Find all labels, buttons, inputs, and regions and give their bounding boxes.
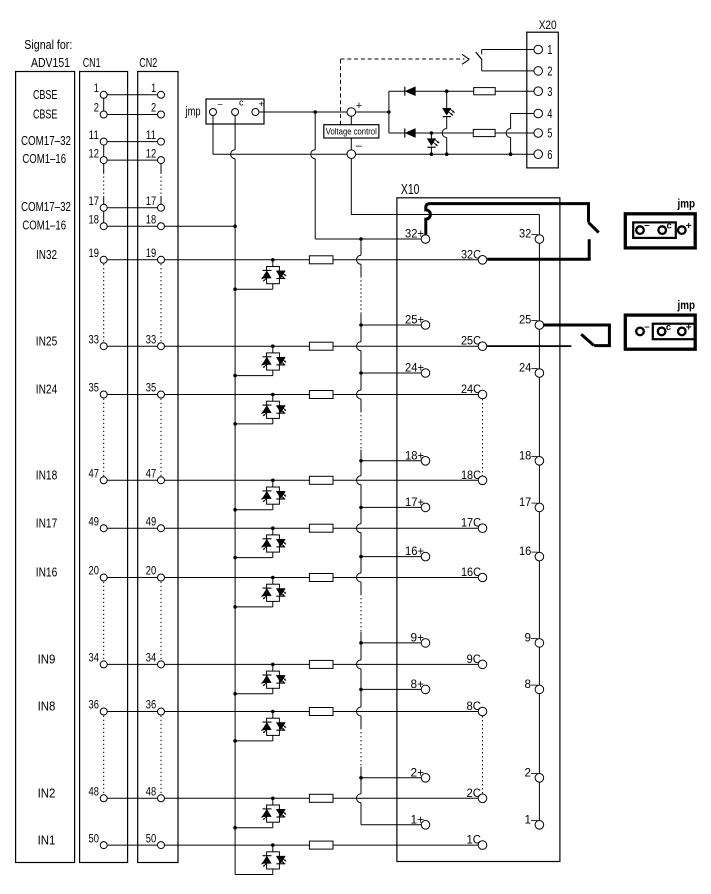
diode bridge left rail xyxy=(388,91,390,133)
svg-text:48: 48 xyxy=(89,785,100,799)
svg-text:18+: 18+ xyxy=(405,448,424,462)
optocoupler indicator IN18 xyxy=(271,479,275,483)
tie CN2 pins 12..17 (dotted continuation) xyxy=(160,164,162,173)
voltage control - terminal xyxy=(347,150,356,159)
junction return IN25 / c bus xyxy=(233,374,237,378)
pin circle CN2-49 xyxy=(158,525,165,532)
svg-text:36: 36 xyxy=(89,698,100,712)
optocoupler return IN9 xyxy=(272,688,274,694)
wire CN1-2 to CN2-2 xyxy=(104,114,161,116)
voltage control + terminal xyxy=(347,108,356,117)
svg-text:CBSE: CBSE xyxy=(33,88,58,102)
svg-text:+: + xyxy=(259,99,265,110)
fuse IN8 xyxy=(309,708,333,716)
tie CN1 pins 11-12 xyxy=(103,142,105,161)
junction + bus top xyxy=(359,237,363,241)
svg-text:17: 17 xyxy=(89,194,100,208)
diode D1 xyxy=(404,87,406,96)
svg-text:6: 6 xyxy=(547,147,552,162)
LED1 vertical wire with hop xyxy=(446,91,448,108)
wire + bus to X10 9+ xyxy=(361,642,426,644)
svg-text:11: 11 xyxy=(146,128,157,142)
dotted continuation CN1 36..48 xyxy=(103,716,105,794)
terminal X10 17+ xyxy=(421,503,430,512)
svg-text:IN16: IN16 xyxy=(36,566,58,580)
fuse IN24 xyxy=(309,391,333,399)
svg-text:18–: 18– xyxy=(519,448,538,462)
pin circle CN2-35 xyxy=(158,391,165,398)
terminal X10 1C xyxy=(478,841,487,850)
svg-text:8C: 8C xyxy=(467,699,482,713)
optocoupler indicator IN9 xyxy=(271,663,275,667)
svg-text:19: 19 xyxy=(146,246,157,260)
pin circle CN2-19 xyxy=(158,256,165,263)
wire + bus to X10 18+ xyxy=(361,460,426,462)
svg-text:48: 48 xyxy=(146,785,157,799)
svg-text:19: 19 xyxy=(89,246,100,260)
jumper icon 2 terminal - xyxy=(636,328,644,336)
external contact blade (ch25) xyxy=(581,334,594,345)
terminal X20-2 xyxy=(534,67,543,76)
switch blade S20 xyxy=(476,52,482,60)
connector CN2 box xyxy=(138,72,178,863)
svg-text:18: 18 xyxy=(89,212,100,226)
optocoupler indicator IN16 xyxy=(271,576,275,580)
svg-text:17C: 17C xyxy=(461,516,481,530)
junction CN2-18 / c bus xyxy=(233,224,237,228)
svg-text:2+: 2+ xyxy=(411,765,425,779)
bold example wire external contact to X10 32C xyxy=(487,239,589,259)
terminal X10 16C xyxy=(478,573,487,582)
wire CN1-20 to CN2-20 xyxy=(104,577,161,579)
wire CN1-1 to CN2-1 xyxy=(104,94,161,96)
pin circle CN1-17 xyxy=(100,204,107,211)
wire + bus to X10 17+ xyxy=(361,506,426,508)
jumper icon 1 terminal + xyxy=(678,226,686,234)
junction return IN18 / c bus xyxy=(233,508,237,512)
+ bus vertical xyxy=(360,239,362,255)
terminal X20-5 xyxy=(534,129,543,138)
jmp terminal box xyxy=(206,99,264,124)
wire - feed (voltage control - to X10 minus bus) xyxy=(350,159,352,215)
terminal X10 2C xyxy=(478,794,487,803)
svg-text:16–: 16– xyxy=(519,544,538,558)
svg-text:IN24: IN24 xyxy=(36,383,58,397)
dotted continuation CN2 19..33 xyxy=(160,264,162,342)
dotted continuation CN2 36..48 xyxy=(160,716,162,794)
LED2 vertical wire xyxy=(430,133,432,139)
jumper setting icon 1 box xyxy=(625,214,695,248)
terminal X10 18+ xyxy=(421,457,430,466)
wire CN1-11 to CN2-11 xyxy=(104,141,161,143)
optocoupler return IN1 xyxy=(272,869,274,875)
fuse IN16 xyxy=(309,574,333,582)
optocoupler indicator IN25 xyxy=(271,344,275,348)
wire CN1-17 to CN2-17 xyxy=(104,207,161,209)
terminal X10 16- xyxy=(535,552,544,561)
pin circle CN2-47 xyxy=(158,477,165,484)
wire + bus to X10 8+ xyxy=(361,688,426,690)
terminal X10 24+ xyxy=(421,369,430,378)
svg-text:16+: 16+ xyxy=(405,544,424,558)
svg-text:jmp: jmp xyxy=(677,298,695,312)
svg-text:16C: 16C xyxy=(461,565,481,579)
wire X20 pin 1 to switch xyxy=(482,49,534,51)
terminal X20-4 xyxy=(534,109,543,118)
svg-text:Signal for:: Signal for: xyxy=(24,38,72,52)
svg-text:34: 34 xyxy=(146,651,157,665)
svg-text:25C: 25C xyxy=(461,334,481,348)
svg-text:IN2: IN2 xyxy=(38,787,56,801)
jumper icon 2 terminal + xyxy=(678,328,686,336)
svg-text:12: 12 xyxy=(146,146,157,160)
junction diode bridge left xyxy=(387,110,391,114)
svg-text:9C: 9C xyxy=(467,652,482,666)
svg-text:c: c xyxy=(239,98,244,108)
connector CN1 box xyxy=(80,72,128,863)
c bus (jmp c to optocoupler returns) xyxy=(234,116,236,150)
wire CN1-49 to CN2-49 xyxy=(104,527,161,529)
wire IN32 (CN2-19 to X10 32C) xyxy=(161,259,478,261)
wire + feed drop xyxy=(314,112,316,150)
svg-text:IN17: IN17 xyxy=(36,516,58,530)
svg-text:18C: 18C xyxy=(461,468,481,482)
svg-text:2–: 2– xyxy=(525,765,538,779)
svg-text:35: 35 xyxy=(89,381,100,395)
svg-text:18: 18 xyxy=(146,212,157,226)
pin circle CN1-33 xyxy=(100,343,107,350)
terminal X10 8C xyxy=(478,707,487,716)
svg-text:IN18: IN18 xyxy=(36,469,58,483)
svg-text:2: 2 xyxy=(151,101,156,115)
wire IN25 (CN2-33 to X10 25C) xyxy=(161,345,478,347)
terminal X10 8- xyxy=(535,685,544,694)
wire X20 pin 4 bridge to pin 6 xyxy=(511,113,534,115)
terminal X20-3 xyxy=(534,87,543,96)
svg-text:1+: 1+ xyxy=(411,812,425,826)
wire IN9 (CN2-34 to X10 9C) xyxy=(161,663,478,665)
wire voltage control + to diode bridge xyxy=(356,111,389,113)
wire common return (voltage control - to X20 pin 6) xyxy=(356,153,534,155)
svg-text:IN25: IN25 xyxy=(36,334,58,348)
svg-text:17–: 17– xyxy=(519,495,538,509)
svg-text:–: – xyxy=(356,140,363,152)
voltage control - stub xyxy=(350,138,352,150)
diode D2 xyxy=(404,129,406,138)
junction return IN17 / c bus xyxy=(233,556,237,560)
optocoupler indicator IN17 xyxy=(271,526,275,530)
connector X20 box xyxy=(527,32,559,168)
terminal X20-1 xyxy=(534,45,543,54)
pin circle CN1-49 xyxy=(100,525,107,532)
svg-text:17: 17 xyxy=(146,194,157,208)
terminal X10 2+ xyxy=(421,774,430,783)
svg-text:24C: 24C xyxy=(461,382,481,396)
terminal X10 32C xyxy=(478,255,487,264)
dotted continuation X10 24C..18C xyxy=(482,399,484,476)
junction return IN16 / c bus xyxy=(233,605,237,609)
voltage control box xyxy=(324,125,379,138)
wire IN2 (CN2-48 to X10 2C) xyxy=(161,797,478,799)
fuse IN2 xyxy=(309,794,333,802)
pin circle CN2-1 xyxy=(158,91,165,98)
wire CN1-12 to CN2-12 xyxy=(104,159,161,161)
fuse IN18 xyxy=(309,476,333,484)
svg-text:c: c xyxy=(666,322,671,333)
svg-text:32–: 32– xyxy=(519,227,538,241)
svg-text:Voltage control: Voltage control xyxy=(326,127,377,137)
pin circle CN1-18 xyxy=(100,223,107,230)
arrowhead toward X20 switch xyxy=(462,54,469,59)
wire CN1-50 to CN2-50 xyxy=(104,844,161,846)
external contact blade (ch32) xyxy=(589,222,599,232)
wire CN1-48 to CN2-48 xyxy=(104,797,161,799)
svg-text:1: 1 xyxy=(547,42,552,57)
bold example wire X10 25- to external contact xyxy=(544,325,610,346)
svg-text:8–: 8– xyxy=(525,677,538,691)
svg-text:25–: 25– xyxy=(519,313,538,327)
junction D2 / LED2 xyxy=(430,131,434,135)
terminal X10 24C xyxy=(478,390,487,399)
terminal X10 32+ xyxy=(421,235,430,244)
jumper icon 1 terminal - xyxy=(636,226,644,234)
jumper setting icon 2 box xyxy=(625,315,695,349)
pin circle CN2-20 xyxy=(158,574,165,581)
svg-text:+: + xyxy=(356,100,362,112)
terminal X10 16+ xyxy=(421,552,430,561)
pin circle CN2-33 xyxy=(158,343,165,350)
fuse IN1 xyxy=(309,841,333,849)
pin circle CN2-12 xyxy=(158,157,165,164)
terminal X10 2- xyxy=(535,774,544,783)
svg-text:c: c xyxy=(667,221,672,232)
svg-text:33: 33 xyxy=(89,332,100,346)
wire diode branch 1 (to X20 pin 3) xyxy=(389,90,405,92)
svg-text:1: 1 xyxy=(151,81,156,95)
svg-text:+: + xyxy=(686,322,692,333)
svg-text:COM17–32: COM17–32 xyxy=(21,200,71,214)
pin circle CN1-36 xyxy=(100,708,107,715)
junction jmp + / + drop xyxy=(313,110,317,114)
jumper setting icon 2 jumper position (c and +) xyxy=(653,324,695,340)
svg-text:+: + xyxy=(686,221,692,232)
svg-text:25+: 25+ xyxy=(405,313,424,327)
junction return IN9 / c bus xyxy=(233,692,237,696)
dotted continuation X10 8C..2C xyxy=(482,716,484,794)
svg-text:24–: 24– xyxy=(519,361,538,375)
jmp terminal circle c xyxy=(232,109,239,116)
svg-text:20: 20 xyxy=(89,564,100,578)
wire CN1-47 to CN2-47 xyxy=(104,479,161,481)
terminal X10 18C xyxy=(478,476,487,485)
dotted continuation CN1 19..33 xyxy=(103,264,105,342)
wire CN1-19 to CN2-19 xyxy=(104,259,161,261)
terminal X10 8+ xyxy=(421,685,430,694)
pin circle CN2-17 xyxy=(158,204,165,211)
svg-text:–: – xyxy=(218,99,223,109)
wire CN1-18 to CN2-18 xyxy=(104,225,161,227)
wire + bus to X10 1+ xyxy=(361,824,426,826)
svg-text:ADV151: ADV151 xyxy=(31,56,70,70)
dotted continuation CN2 35..47 xyxy=(160,399,162,476)
junction LED2 / return xyxy=(430,152,434,156)
wire IN16 (CN2-20 to X10 16C) xyxy=(161,577,478,579)
fuse IN9 xyxy=(309,660,333,668)
pin circle CN1-34 xyxy=(100,661,107,668)
svg-text:IN1: IN1 xyxy=(38,833,56,847)
svg-text:50: 50 xyxy=(146,831,157,845)
svg-text:9–: 9– xyxy=(525,630,538,644)
terminal X10 9+ xyxy=(421,639,430,648)
LED1 (indicator diode) xyxy=(443,108,451,115)
pin circle CN1-48 xyxy=(100,795,107,802)
pin circle CN1-12 xyxy=(100,157,107,164)
junction return IN24 / c bus xyxy=(233,422,237,426)
terminal X10 25+ xyxy=(421,321,430,330)
pin circle CN2-36 xyxy=(158,708,165,715)
svg-text:49: 49 xyxy=(146,514,157,528)
svg-text:jmp: jmp xyxy=(185,104,201,118)
pin circle CN1-1 xyxy=(100,91,107,98)
svg-text:2C: 2C xyxy=(467,786,482,800)
optocoupler return IN24 xyxy=(272,418,274,424)
svg-text:CBSE: CBSE xyxy=(33,107,58,121)
optocoupler indicator IN32 xyxy=(271,258,275,262)
jumper icon 2 terminal c xyxy=(658,328,666,336)
wire IN18 (CN2-47 to X10 18C) xyxy=(161,479,478,481)
fuse F5 xyxy=(473,129,495,136)
pin circle CN2-11 xyxy=(158,138,165,145)
svg-text:COM17–32: COM17–32 xyxy=(21,134,71,148)
svg-text:IN9: IN9 xyxy=(38,653,56,667)
wire X10 25C toward external contact xyxy=(487,345,572,347)
svg-text:32+: 32+ xyxy=(405,227,424,241)
dotted continuation CN2 20..34 xyxy=(160,582,162,661)
svg-text:5: 5 xyxy=(547,126,552,141)
terminal X10 25- xyxy=(535,321,544,330)
wire IN8 (CN2-36 to X10 8C) xyxy=(161,711,478,713)
wire CN1-33 to CN2-33 xyxy=(104,345,161,347)
voltage control + stub xyxy=(350,116,352,124)
jumper icon 1 terminal c xyxy=(658,226,666,234)
wire + bus to X10 24+ xyxy=(361,372,426,374)
svg-text:IN32: IN32 xyxy=(36,248,57,262)
optocoupler indicator IN1 xyxy=(271,843,275,847)
svg-text:4: 4 xyxy=(547,106,552,121)
terminal X10 24- xyxy=(535,369,544,378)
svg-text:20: 20 xyxy=(146,564,157,578)
optocoupler indicator IN2 xyxy=(271,797,275,801)
signal name box ADV151 xyxy=(16,72,75,863)
optocoupler indicator IN24 xyxy=(271,393,275,397)
svg-text:47: 47 xyxy=(146,467,157,481)
pin circle CN2-34 xyxy=(158,661,165,668)
fuse IN25 xyxy=(309,342,333,350)
junction LED1 / return xyxy=(445,152,449,156)
svg-text:X10: X10 xyxy=(401,182,420,198)
dotted continuation CN1 35..47 xyxy=(103,399,105,476)
svg-text:24+: 24+ xyxy=(405,361,424,375)
pin circle CN1-47 xyxy=(100,477,107,484)
optocoupler return IN25 xyxy=(272,370,274,376)
junction D1 / LED1 xyxy=(445,89,449,93)
svg-text:47: 47 xyxy=(89,467,100,481)
pin circle CN1-35 xyxy=(100,391,107,398)
optocoupler return IN2 xyxy=(272,822,274,828)
svg-text:17+: 17+ xyxy=(405,495,424,509)
svg-text:34: 34 xyxy=(89,651,100,665)
dotted continuation CN1 20..34 xyxy=(103,582,105,661)
terminal X10 1- xyxy=(535,821,544,830)
svg-text:12: 12 xyxy=(89,146,100,160)
svg-text:2: 2 xyxy=(547,64,552,79)
pin circle CN2-50 xyxy=(158,842,165,849)
terminal X10 32- xyxy=(535,235,544,244)
tie CN1 pins 12..17 (dotted continuation) xyxy=(103,164,105,173)
svg-text:CN2: CN2 xyxy=(139,56,157,70)
wire + bus to X10 25+ xyxy=(361,324,426,326)
tie CN1 pins 1-2 xyxy=(103,95,105,115)
optocoupler return IN17 xyxy=(272,552,274,558)
wire IN17 (CN2-49 to X10 17C) xyxy=(161,527,478,529)
svg-text:2: 2 xyxy=(94,101,99,115)
svg-text:1C: 1C xyxy=(467,833,482,847)
svg-text:3: 3 xyxy=(547,84,552,99)
X10 minus bus xyxy=(538,215,540,825)
wire jmp - down and right to voltage control - xyxy=(212,112,214,154)
wire CN1-36 to CN2-36 xyxy=(104,711,161,713)
LED2 (indicator diode) xyxy=(427,139,435,146)
svg-text:–: – xyxy=(644,321,649,332)
tie CN1 pins 17-18 xyxy=(103,208,105,227)
optocoupler return IN16 xyxy=(272,601,274,607)
junction pin4 bridge / return xyxy=(509,152,513,156)
jmp terminal circle - xyxy=(210,109,217,116)
svg-text:COM1–16: COM1–16 xyxy=(22,218,66,232)
svg-text:50: 50 xyxy=(89,831,100,845)
terminal X10 17C xyxy=(478,524,487,533)
wire + bus to X10 2+ xyxy=(361,777,426,779)
svg-text:1: 1 xyxy=(94,81,99,95)
bold example wire X10 32+ to external contact xyxy=(426,204,589,236)
terminal X10 18- xyxy=(535,457,544,466)
svg-text:8+: 8+ xyxy=(411,677,425,691)
fuse F3 xyxy=(474,88,496,95)
wire + bus to X10 32+ xyxy=(361,238,426,240)
svg-text:COM1–16: COM1–16 xyxy=(22,152,66,166)
wire CN2-18 to c bus xyxy=(161,225,235,227)
connector X10 box xyxy=(397,198,560,862)
svg-text:35: 35 xyxy=(146,381,157,395)
terminal X10 9- xyxy=(535,639,544,648)
svg-text:jmp: jmp xyxy=(677,197,695,211)
terminal X10 25C xyxy=(478,342,487,351)
terminal X10 17- xyxy=(535,503,544,512)
wire + bus to X10 16+ xyxy=(361,556,426,558)
junction return IN8 / c bus xyxy=(233,739,237,743)
optocoupler return IN32 xyxy=(272,284,274,290)
junction return IN32 / c bus xyxy=(233,287,237,291)
wire IN1 (CN2-50 to X10 1C) xyxy=(161,844,478,846)
jumper setting icon 1 jumper position (- and c) xyxy=(633,222,676,238)
optocoupler return IN18 xyxy=(272,504,274,510)
svg-text:36: 36 xyxy=(146,698,157,712)
pin circle CN2-18 xyxy=(158,223,165,230)
pin circle CN1-2 xyxy=(100,111,107,118)
wire diode branch 2 (to X20 pin 5) xyxy=(389,132,405,134)
wire jmp + to voltage control + xyxy=(255,111,347,113)
svg-text:–: – xyxy=(644,220,649,231)
